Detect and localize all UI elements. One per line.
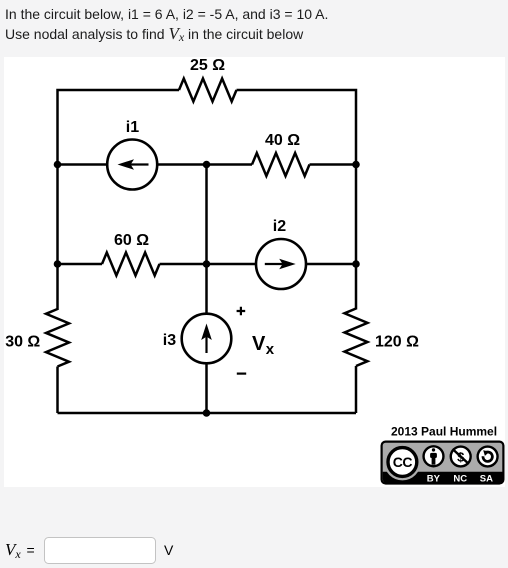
resistor R1 25ohm (top): [179, 79, 236, 102]
svg-text:i2: i2: [273, 218, 286, 235]
svg-text:i3: i3: [163, 332, 176, 349]
resistor R4 30ohm (left rail): [46, 309, 69, 366]
wire bottom rail: [58, 412, 357, 415]
resistor R5 120ohm (right rail): [345, 309, 368, 366]
node dot middle row2: [203, 260, 211, 268]
wire right rail bottom segment: [355, 366, 358, 413]
resistor R3 60ohm (row2): [102, 253, 159, 276]
svg-text:V: V: [252, 333, 266, 355]
node dot right row2: [352, 260, 360, 268]
wire row2 left (left rail to 60ohm): [58, 263, 103, 266]
svg-text:25 Ω: 25 Ω: [190, 57, 225, 74]
wire row2 right (i2 to right rail): [306, 263, 356, 266]
wire row2 middle (60ohm to i2): [160, 263, 257, 266]
node dot middle row1 (node A): [203, 161, 211, 169]
wire middle rail upper (node A to i3 top): [205, 165, 208, 314]
wire row1 left (left rail to i1): [58, 163, 108, 166]
i2 arrow shaft: [265, 263, 283, 265]
white schematic panel: [4, 57, 505, 487]
i1 arrow shaft: [131, 163, 149, 165]
svg-text:NC: NC: [453, 474, 467, 485]
node dot left row1: [54, 161, 62, 169]
NC non-commercial icon: [451, 447, 471, 467]
plus sign of Vx: [237, 307, 246, 316]
node dot right row1: [352, 161, 360, 169]
question text: [5, 4, 328, 47]
wire middle rail lower (i3 bottom to bottom rail): [205, 363, 208, 413]
resistor R2 40ohm (row1): [252, 153, 309, 176]
answer row: Vx = [input] V: [5, 540, 21, 562]
CC logo circle: [384, 444, 421, 481]
i3 arrow shaft: [205, 337, 207, 354]
minus sign of Vx: [237, 373, 246, 375]
svg-text:x: x: [266, 341, 275, 358]
svg-text:60 Ω: 60 Ω: [114, 232, 149, 249]
wire top-left corner (left rail top + top wire left lead): [58, 90, 180, 310]
i3 arrow head: [201, 324, 212, 341]
current source i3 circle: [182, 314, 232, 364]
node dot bottom rail: [203, 409, 211, 417]
svg-text:2013 Paul Hummel: 2013 Paul Hummel: [391, 425, 497, 439]
wire left rail bottom segment: [56, 367, 59, 414]
wire top-right corner (top wire right lead + right rail top): [237, 90, 357, 310]
current source i1 circle: [107, 140, 157, 190]
BY attribution icon: [424, 446, 444, 466]
i1 arrow head: [118, 159, 135, 170]
CC license badge background: [382, 442, 504, 484]
wire row1 right (40ohm to right rail): [310, 163, 357, 166]
SA share-alike icon: [478, 447, 498, 467]
i2 arrow head: [279, 259, 296, 270]
current source i2 circle: [256, 239, 306, 289]
svg-text:30 Ω: 30 Ω: [5, 334, 40, 351]
svg-text:i1: i1: [126, 119, 139, 136]
node dot left row2: [54, 260, 62, 268]
wire row1 middle (i1 to 40ohm): [157, 163, 252, 166]
svg-text:BY: BY: [427, 474, 441, 485]
svg-text:40 Ω: 40 Ω: [265, 132, 300, 149]
BY NC SA band labels: [427, 474, 493, 485]
svg-text:120 Ω: 120 Ω: [375, 334, 419, 351]
svg-text:CC: CC: [393, 454, 413, 470]
svg-text:SA: SA: [480, 474, 493, 485]
